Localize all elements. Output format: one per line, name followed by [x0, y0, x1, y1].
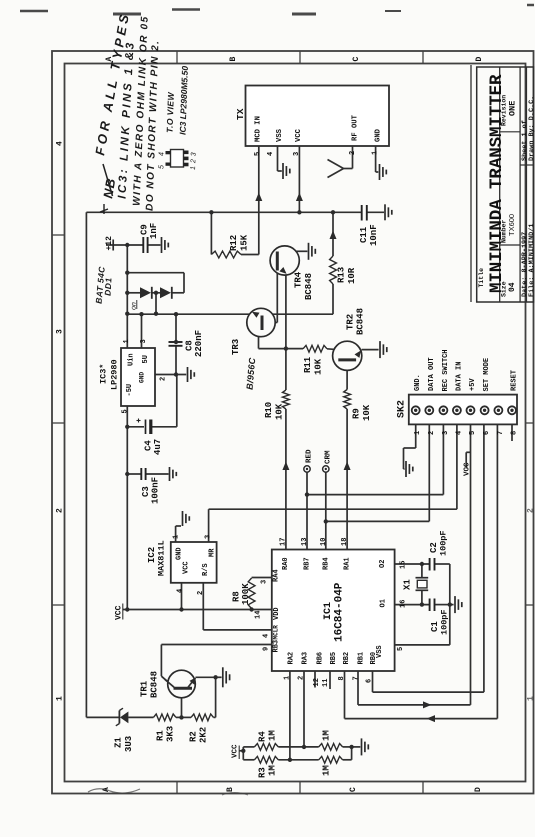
- svg-text:TR2: TR2: [346, 314, 356, 330]
- svg-text:VCC: VCC: [232, 744, 240, 758]
- svg-text:VSS: VSS: [376, 645, 384, 658]
- svg-text:Revision: Revision: [501, 95, 508, 126]
- svg-text:2: 2: [428, 431, 436, 435]
- svg-text:10nF: 10nF: [369, 224, 379, 246]
- svg-text:RB2: RB2: [343, 652, 351, 665]
- svg-text:10: 10: [320, 538, 328, 546]
- svg-text:A: A: [102, 787, 111, 792]
- svg-text:14: 14: [255, 611, 263, 619]
- svg-text:7: 7: [353, 676, 361, 680]
- svg-text:8: 8: [511, 431, 519, 435]
- svg-text:12: 12: [313, 678, 321, 686]
- svg-text:R2: R2: [189, 731, 199, 742]
- svg-text:O2: O2: [379, 560, 387, 568]
- svg-text:RESET: RESET: [511, 370, 519, 391]
- svg-text:GND: GND: [139, 372, 146, 383]
- svg-text:CRM: CRM: [325, 450, 333, 464]
- svg-text:2: 2: [197, 591, 205, 595]
- svg-text:4: 4: [159, 151, 166, 156]
- svg-text:10K: 10K: [275, 403, 285, 420]
- svg-text:3: 3: [261, 580, 269, 584]
- svg-text:D: D: [475, 57, 484, 62]
- svg-text:18: 18: [341, 538, 349, 546]
- svg-text:Drawn By: D.C.C.: Drawn By: D.C.C.: [528, 96, 535, 161]
- svg-text:1: 1: [414, 431, 422, 435]
- svg-text:1: 1: [372, 151, 380, 155]
- svg-text:SK2: SK2: [397, 400, 408, 418]
- svg-text:C1: C1: [430, 621, 440, 632]
- svg-text:2: 2: [349, 151, 357, 155]
- svg-text:C4: C4: [144, 440, 154, 451]
- svg-text:DD1: DD1: [103, 277, 114, 296]
- svg-text:100pF: 100pF: [440, 609, 450, 635]
- svg-text:2: 2: [56, 508, 65, 513]
- svg-text:C: C: [352, 57, 361, 62]
- svg-text:RA3: RA3: [302, 652, 310, 665]
- svg-text:10K: 10K: [314, 358, 324, 375]
- svg-text:LP2980: LP2980: [110, 359, 120, 390]
- svg-text:3U3: 3U3: [124, 736, 134, 752]
- svg-text:VCC: VCC: [464, 462, 472, 476]
- svg-text:C9: C9: [140, 224, 150, 235]
- svg-text:MCD IN: MCD IN: [255, 116, 263, 142]
- svg-text:RB1: RB1: [358, 652, 366, 665]
- svg-text:BC848: BC848: [150, 671, 160, 698]
- svg-text:15K: 15K: [240, 234, 250, 251]
- svg-text:TR4: TR4: [294, 271, 304, 288]
- svg-text:5: 5: [469, 431, 477, 435]
- svg-text:R12: R12: [229, 235, 239, 251]
- svg-text:2: 2: [527, 508, 535, 513]
- svg-text:3K3: 3K3: [166, 726, 176, 742]
- svg-text:1M: 1M: [268, 730, 278, 741]
- svg-text:10R: 10R: [347, 267, 357, 284]
- svg-text:MR: MR: [209, 548, 217, 557]
- svg-text:RA1: RA1: [344, 557, 352, 570]
- svg-text:5: 5: [397, 647, 405, 651]
- svg-text:VCC: VCC: [115, 605, 124, 620]
- svg-text:R11: R11: [303, 356, 313, 373]
- svg-text:BC848: BC848: [356, 308, 366, 335]
- svg-text:4: 4: [177, 589, 185, 593]
- svg-text:R8: R8: [232, 591, 242, 602]
- svg-text:R9: R9: [352, 408, 362, 419]
- svg-text:X1: X1: [403, 579, 413, 590]
- svg-text:1: 1: [173, 535, 181, 539]
- svg-text:TR1: TR1: [140, 680, 150, 697]
- svg-text:6: 6: [366, 679, 374, 683]
- svg-text:SET MODE: SET MODE: [483, 358, 491, 392]
- svg-text:16: 16: [400, 600, 408, 608]
- svg-text:TX600: TX600: [507, 214, 516, 236]
- svg-text:Uin: Uin: [128, 353, 136, 366]
- svg-text:3: 3: [205, 535, 213, 539]
- svg-text:IC3*: IC3*: [99, 364, 109, 384]
- svg-text:RB7: RB7: [304, 557, 312, 570]
- svg-text:2: 2: [160, 377, 168, 381]
- svg-text:BC848: BC848: [304, 273, 314, 300]
- svg-text:10K: 10K: [362, 404, 372, 421]
- svg-text:5: 5: [159, 164, 166, 169]
- svg-text:C: C: [349, 787, 358, 792]
- svg-text:+12: +12: [105, 236, 114, 251]
- svg-text:15: 15: [400, 561, 408, 569]
- svg-text:File: A:MINIMIND/1: File: A:MINIMIND/1: [528, 224, 535, 297]
- svg-text:C3: C3: [141, 486, 151, 497]
- svg-text:R4: R4: [258, 731, 268, 742]
- svg-text:VCC: VCC: [183, 561, 191, 574]
- svg-text:100nF: 100nF: [151, 477, 161, 504]
- svg-text:R13: R13: [337, 267, 347, 283]
- svg-text:4u7: 4u7: [153, 439, 163, 455]
- svg-text:7: 7: [497, 431, 505, 435]
- svg-text:13: 13: [301, 538, 309, 546]
- svg-text:04: 04: [508, 282, 517, 292]
- svg-text:R10: R10: [264, 402, 274, 418]
- svg-text:1: 1: [527, 696, 535, 701]
- svg-text:1: 1: [56, 696, 65, 701]
- svg-text:GND.: GND.: [414, 374, 422, 391]
- svg-text:RB5: RB5: [330, 652, 338, 665]
- svg-text:VSS: VSS: [276, 128, 284, 142]
- svg-text:MAX811L: MAX811L: [157, 540, 167, 576]
- svg-text:C11: C11: [359, 226, 369, 243]
- svg-text:O1: O1: [380, 599, 388, 607]
- svg-text:1nF: 1nF: [149, 223, 159, 239]
- svg-text:3: 3: [140, 339, 148, 343]
- svg-text:4: 4: [263, 634, 271, 638]
- svg-text:5U: 5U: [142, 355, 150, 363]
- svg-text:Z1: Z1: [114, 737, 124, 748]
- svg-text:TR3: TR3: [231, 339, 241, 355]
- svg-text:6: 6: [483, 431, 491, 435]
- svg-text:RA4: RA4: [273, 569, 281, 582]
- svg-text:C2: C2: [429, 542, 439, 553]
- svg-text:T.O VIEW: T.O VIEW: [165, 91, 176, 133]
- svg-text:RB3: RB3: [273, 640, 281, 653]
- svg-text:ONE: ONE: [508, 101, 518, 116]
- svg-text:GND: GND: [375, 128, 383, 142]
- svg-text:5: 5: [254, 152, 262, 156]
- svg-text:REC SWITCH: REC SWITCH: [442, 349, 450, 391]
- svg-text:11: 11: [322, 679, 330, 687]
- svg-text:R3: R3: [258, 767, 268, 778]
- svg-text:2K2: 2K2: [199, 727, 209, 743]
- svg-text:1: 1: [123, 339, 131, 343]
- svg-text:MCLR: MCLR: [273, 625, 280, 640]
- svg-text:RF OUT: RF OUT: [352, 114, 360, 141]
- svg-text:RED: RED: [306, 449, 314, 463]
- svg-text:GND: GND: [176, 547, 184, 560]
- svg-text:VCC: VCC: [295, 128, 303, 142]
- svg-text:1M: 1M: [322, 765, 332, 776]
- svg-text:RB4: RB4: [323, 557, 331, 570]
- svg-text:1M: 1M: [268, 765, 278, 776]
- svg-text:3: 3: [442, 431, 450, 435]
- svg-text:+5V: +5V: [469, 378, 477, 391]
- svg-text:5: 5: [122, 409, 130, 413]
- svg-text:1 2 3: 1 2 3: [190, 152, 198, 170]
- svg-text:RA0: RA0: [282, 557, 290, 570]
- svg-text:IC2: IC2: [147, 547, 157, 563]
- svg-text:3: 3: [293, 152, 301, 156]
- svg-text:B: B: [229, 57, 238, 62]
- svg-text:3: 3: [56, 329, 65, 334]
- svg-text:IC1: IC1: [323, 602, 334, 620]
- svg-text:1M: 1M: [322, 730, 332, 741]
- svg-text:100pF: 100pF: [439, 530, 449, 556]
- svg-text:DATA OUT: DATA OUT: [428, 357, 436, 391]
- svg-text:VDD: VDD: [273, 607, 281, 620]
- svg-text:9: 9: [263, 647, 271, 651]
- svg-text:2: 2: [298, 676, 306, 680]
- svg-text:4: 4: [455, 431, 463, 435]
- svg-text:220nF: 220nF: [194, 330, 204, 357]
- svg-text:Size: Size: [501, 281, 508, 297]
- svg-text:-5U: -5U: [126, 384, 134, 397]
- svg-text:4: 4: [267, 152, 275, 156]
- svg-text:100K: 100K: [241, 583, 251, 605]
- svg-text:R/S: R/S: [202, 563, 210, 576]
- svg-text:16C84-04P: 16C84-04P: [334, 582, 346, 642]
- svg-text:RB6: RB6: [317, 652, 325, 665]
- svg-text:8: 8: [338, 676, 346, 680]
- svg-text:TX: TX: [235, 108, 246, 120]
- svg-text:R1: R1: [156, 730, 166, 741]
- svg-text:D: D: [474, 787, 483, 792]
- svg-text:DATA IN: DATA IN: [455, 362, 463, 391]
- svg-text:1: 1: [284, 676, 292, 680]
- svg-text:4: 4: [56, 141, 65, 146]
- svg-text:Title: Title: [478, 268, 485, 288]
- svg-text:RA2: RA2: [288, 652, 296, 665]
- svg-text:B: B: [226, 787, 235, 792]
- svg-text:17: 17: [280, 538, 288, 546]
- svg-text:C8: C8: [185, 340, 195, 351]
